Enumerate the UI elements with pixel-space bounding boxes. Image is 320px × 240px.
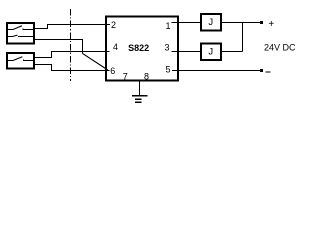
svg-text:J: J	[208, 47, 213, 58]
svg-text:S822: S822	[128, 43, 149, 53]
svg-text:+: +	[268, 19, 274, 30]
svg-text:24V DC: 24V DC	[264, 42, 296, 52]
svg-text:5: 5	[165, 65, 170, 75]
svg-text:6: 6	[110, 66, 115, 76]
svg-text:3: 3	[164, 43, 169, 53]
svg-text:8: 8	[144, 72, 149, 82]
svg-text:J: J	[208, 17, 213, 28]
svg-text:2: 2	[111, 20, 116, 30]
svg-text:4: 4	[113, 42, 118, 52]
svg-text:1: 1	[165, 21, 170, 31]
svg-text:7: 7	[123, 72, 128, 82]
